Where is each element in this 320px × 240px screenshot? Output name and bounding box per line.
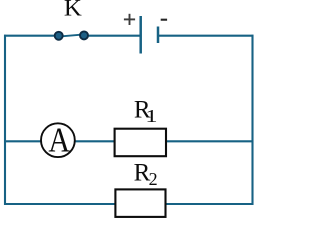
switch K blade <box>59 34 84 36</box>
wire right vertical <box>251 35 253 205</box>
resistor R2 body <box>115 189 165 217</box>
wire middle horizontal <box>4 140 254 142</box>
svg-text:A: A <box>48 120 70 158</box>
svg-text:1: 1 <box>145 106 157 126</box>
switch K contact dot right <box>80 31 88 39</box>
ammeter A1 circle <box>41 123 75 157</box>
wire top left segment <box>4 35 59 37</box>
wire left vertical <box>4 35 6 205</box>
wire top middle segment <box>84 35 141 37</box>
svg-text:K: K <box>64 0 83 21</box>
battery polarity label + <box>124 14 135 25</box>
wire top right segment <box>158 35 254 37</box>
wire bottom horizontal <box>4 203 254 205</box>
resistor R1 body <box>115 129 166 157</box>
battery negative plate (short) <box>157 27 160 44</box>
battery polarity label - <box>161 19 167 21</box>
switch K contact dot left <box>55 32 63 40</box>
svg-text:2: 2 <box>149 169 158 189</box>
battery positive plate (long) <box>139 16 142 54</box>
